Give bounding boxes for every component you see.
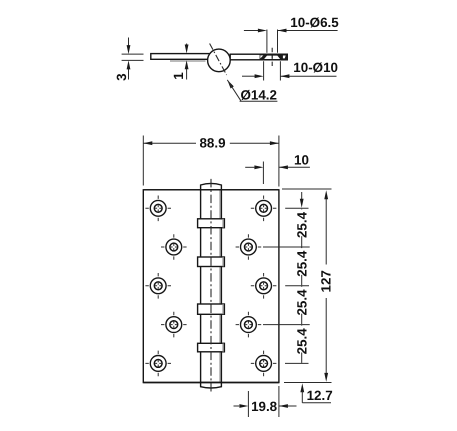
dimension 25.4 (3) [294, 286, 309, 324]
hinge top edge [143, 189, 279, 191]
svg-text:88.9: 88.9 [199, 136, 225, 151]
dimension 1 (leaf thickness) [171, 44, 189, 80]
hinge bottom edge [143, 382, 279, 384]
top view: barrel circle [208, 49, 231, 72]
bearing ring 2 [198, 257, 225, 267]
dimension 10 (edge distance) [245, 153, 310, 184]
svg-text:10-Ø10: 10-Ø10 [293, 60, 338, 75]
bearing ring 1 [198, 219, 225, 228]
dimension 88.9 (hinge width) [143, 136, 279, 187]
dimension chain 25.4 top arrow [300, 192, 304, 208]
screw hole L1 [145, 196, 171, 222]
dimension 3 (thickness) [114, 38, 144, 81]
dimension 25.4 (4) [294, 325, 309, 363]
screw hole R1 [251, 196, 277, 222]
screw hole L2 [161, 234, 187, 260]
svg-text:3: 3 [114, 73, 129, 80]
front view: left leaf [143, 190, 200, 383]
svg-text:25.4: 25.4 [294, 211, 309, 238]
screw hole L3 [145, 273, 171, 299]
top view: right leaf edge under left leaf [170, 60, 206, 62]
barrel shading [219, 190, 221, 383]
dimension 12.7 (bottom edge distance) [300, 383, 332, 403]
top view: barrel centerline (diagonal dash-dot) [210, 44, 227, 76]
svg-text:127: 127 [318, 270, 333, 292]
svg-text:25.4: 25.4 [294, 328, 309, 355]
top view: left leaf cross-section [151, 54, 210, 60]
dimension 25.4 (2) [294, 248, 309, 286]
dimension 25.4 (1) [294, 209, 309, 247]
svg-text:10-Ø6.5: 10-Ø6.5 [290, 15, 339, 30]
top edge extension line [282, 188, 332, 190]
dimension 127 (hinge height) [318, 190, 333, 382]
svg-text:10: 10 [294, 153, 309, 168]
pin cap top [201, 183, 222, 189]
svg-text:25.4: 25.4 [294, 289, 309, 316]
svg-text:19.8: 19.8 [251, 399, 278, 414]
hole row 5 extension line [285, 362, 309, 364]
svg-text:25.4: 25.4 [294, 250, 309, 277]
dimension 19.8 (inner hole column) [234, 386, 297, 417]
top view: hole centerline [271, 48, 273, 66]
svg-text:1: 1 [171, 72, 186, 80]
top view: countersunk hole section [260, 54, 288, 60]
pin cap bottom [201, 383, 222, 389]
screw hole R5 [251, 351, 277, 377]
screw hole R3 [251, 273, 277, 299]
screw hole R2 [236, 234, 262, 260]
hole row 4 extension line [263, 324, 310, 326]
bottom edge extension line [284, 382, 332, 384]
bearing ring 4 [198, 343, 225, 352]
screw hole R4 [236, 312, 262, 338]
svg-text:Ø14.2: Ø14.2 [241, 88, 277, 103]
barrel tube [201, 190, 222, 383]
hole row 3 extension line [285, 285, 309, 287]
dimension 10-Ø10 (countersink) [242, 60, 338, 81]
barrel centerline [210, 179, 212, 394]
dimension 10-Ø6.5 (top holes) [244, 15, 339, 53]
screw hole L4 [161, 312, 187, 338]
hole row 2 extension line [263, 246, 310, 248]
bearing ring 3 [198, 304, 225, 314]
leader Ø14.2 (barrel diameter) [227, 80, 277, 103]
hole row 1 extension line [285, 207, 308, 209]
front view: right leaf [221, 190, 279, 383]
top view: right leaf cross-section [230, 54, 287, 60]
svg-text:12.7: 12.7 [307, 388, 333, 403]
screw hole L5 [145, 351, 171, 377]
